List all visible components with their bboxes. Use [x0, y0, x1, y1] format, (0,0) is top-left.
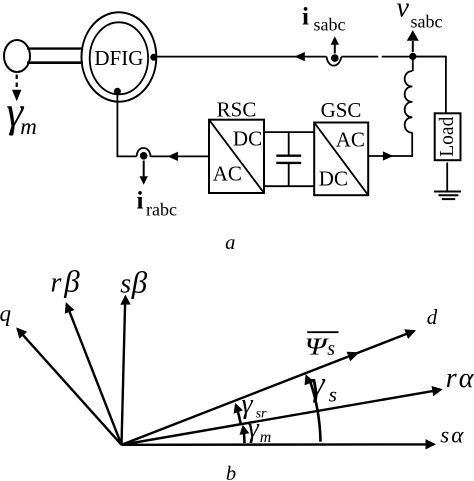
v_sabc label	[397, 0, 443, 32]
label s-beta	[120, 264, 148, 299]
wire junction to inductor	[412, 56, 414, 71]
stator current sensor loop	[327, 57, 342, 66]
stator wire arrow (to DFIG)	[294, 52, 305, 61]
axis s-alpha	[122, 439, 437, 449]
ground symbol	[434, 192, 461, 200]
svg-text:rabc: rabc	[146, 200, 177, 220]
svg-text:d: d	[427, 305, 438, 329]
stator wire: sensor to junction	[341, 56, 446, 58]
v_sabc arrow	[407, 30, 419, 52]
GSC output arrow	[383, 151, 394, 160]
svg-text:Load: Load	[437, 116, 458, 156]
axis d / psi_s direction	[122, 329, 417, 445]
angle arc gamma_sr	[234, 403, 243, 423]
rotor wire arrow (to rotor)	[167, 152, 178, 161]
axis q	[16, 327, 121, 444]
svg-text:q: q	[0, 301, 11, 326]
axis r-beta	[65, 302, 122, 445]
svg-text:DC: DC	[233, 126, 262, 150]
svg-text:DFIG: DFIG	[94, 46, 143, 70]
svg-text:s: s	[329, 383, 337, 407]
gamma_m label	[6, 89, 37, 139]
stator wire: DFIG to sensor	[154, 56, 327, 58]
svg-text:γ: γ	[242, 389, 254, 420]
svg-text:m: m	[260, 429, 272, 446]
GSC diagonal	[314, 123, 368, 196]
svg-text:r: r	[51, 268, 62, 299]
svg-text:AC: AC	[213, 161, 242, 185]
node: rotor terminal dot	[114, 88, 121, 95]
label gamma_m (rotor angle)	[248, 413, 272, 446]
wire junction to load	[413, 57, 446, 114]
angle arc gamma_m	[240, 425, 250, 443]
svg-text:Ψ: Ψ	[305, 335, 330, 361]
node: stator terminal dot	[150, 54, 157, 61]
svg-text:sabc: sabc	[314, 15, 346, 35]
i_rabc arrow	[140, 161, 148, 185]
svg-text:α: α	[459, 363, 474, 394]
converter RSC box	[209, 120, 264, 193]
svg-text:AC: AC	[336, 127, 365, 151]
svg-text:α: α	[451, 423, 464, 448]
label gamma_sr (slip angle)	[242, 389, 268, 421]
axis s-beta	[120, 295, 130, 445]
rotor wire: sensor to RSC	[151, 155, 209, 157]
wire up to filter inductor	[411, 133, 413, 157]
label r-beta	[51, 264, 81, 299]
wire load to ground	[446, 163, 448, 192]
rotor sensor dot	[140, 152, 148, 160]
dc-link top wire	[264, 131, 314, 133]
label psi_s with overline	[305, 332, 339, 360]
rotor wire: down and right	[117, 91, 136, 156]
svg-text:i: i	[302, 4, 309, 31]
i_sabc label	[302, 4, 345, 35]
dc-link bottom wire	[264, 185, 314, 187]
svg-text:r: r	[446, 363, 457, 394]
turbine hub	[4, 40, 30, 72]
svg-text:v: v	[397, 0, 410, 24]
i_rabc label	[137, 188, 177, 220]
svg-text:s: s	[120, 269, 131, 300]
svg-text:b: b	[226, 463, 236, 481]
svg-text:sr: sr	[256, 406, 267, 421]
label s-alpha	[440, 422, 464, 447]
svg-text:a: a	[225, 232, 235, 254]
node: grid junction dot	[409, 53, 416, 60]
svg-text:γ: γ	[311, 364, 326, 403]
svg-text:GSC: GSC	[321, 98, 362, 122]
load box	[435, 113, 461, 160]
svg-text:m: m	[20, 114, 37, 139]
converter GSC box	[314, 123, 368, 196]
svg-text:sabc: sabc	[411, 12, 443, 32]
gamma_m dashed arrow	[12, 75, 21, 102]
svg-text:s: s	[440, 422, 449, 447]
label r-alpha	[446, 363, 474, 394]
DFIG inner circle	[90, 22, 148, 94]
axis r-alpha	[122, 386, 443, 445]
RSC diagonal	[209, 120, 264, 193]
svg-text:DC: DC	[319, 167, 348, 191]
psi_s vector arrowhead	[347, 352, 360, 361]
svg-text:RSC: RSC	[217, 98, 257, 122]
angle arc gamma_s	[305, 374, 321, 442]
shaft	[27, 49, 83, 63]
filter inductor coil	[405, 71, 413, 133]
rotor current sensor loop	[137, 148, 151, 157]
svg-text:β: β	[63, 264, 80, 299]
dc-link capacitor	[276, 132, 301, 186]
svg-text:i: i	[137, 188, 144, 215]
label gamma_s (stator flux angle)	[311, 364, 337, 407]
svg-text:s: s	[327, 338, 335, 360]
svg-text:β: β	[131, 264, 148, 299]
i_sabc arrow	[331, 36, 339, 53]
sensor dot	[331, 54, 339, 62]
generator DFIG outer circle	[82, 12, 157, 101]
GSC output wire	[368, 155, 412, 157]
